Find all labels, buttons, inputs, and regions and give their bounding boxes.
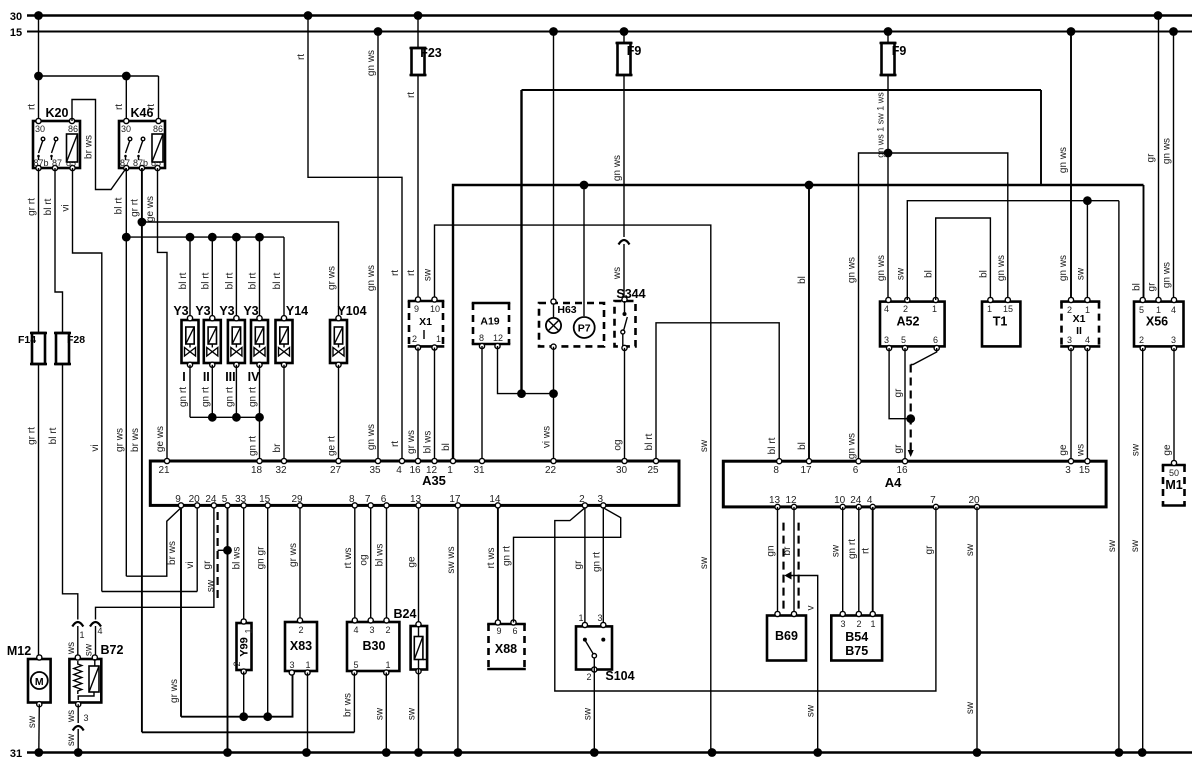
svg-text:III: III (225, 370, 235, 384)
label vi (61, 204, 72, 211)
wire A35-13 ge (418, 508, 420, 626)
label og (613, 439, 624, 450)
svg-text:87: 87 (52, 158, 62, 168)
svg-text:rt: rt (406, 92, 417, 98)
svg-text:Y3: Y3 (195, 304, 210, 318)
svg-text:6: 6 (512, 626, 517, 636)
label gr rt (130, 199, 141, 217)
label bl A52-1 (924, 270, 935, 278)
label bl rt (48, 427, 59, 444)
svg-text:24: 24 (205, 494, 217, 505)
wire ge X1II-3 to A4-3 (1070, 348, 1072, 461)
svg-text:S344: S344 (616, 287, 645, 301)
arrow B72-1 (72, 622, 83, 627)
label gr A4-7 (924, 545, 935, 555)
svg-text:IV: IV (248, 370, 260, 384)
svg-text:gn ws: gn ws (366, 424, 377, 450)
wire B72 bottom (77, 704, 79, 752)
svg-text:bl: bl (924, 270, 935, 278)
label sw X56-2 (1131, 443, 1142, 456)
label gn rt Y3 (224, 387, 235, 407)
svg-text:sw: sw (895, 267, 906, 280)
svg-text:14: 14 (489, 494, 501, 505)
label gn rt B54 (847, 539, 858, 559)
label ge ws mid (155, 426, 166, 452)
label rt K20-30 (27, 104, 38, 110)
wire Y top 3 (235, 237, 237, 317)
svg-text:3: 3 (1171, 335, 1176, 345)
relay K20 (33, 118, 80, 170)
svg-text:4: 4 (97, 626, 102, 636)
svg-text:bl rt: bl rt (178, 272, 189, 289)
wire vi link (102, 591, 197, 593)
svg-text:sw: sw (84, 643, 95, 656)
svg-text:sw: sw (831, 544, 842, 557)
label rt K46-86 (146, 104, 157, 110)
svg-text:ge rt: ge rt (327, 436, 338, 456)
label og A35-7 (359, 554, 370, 565)
wire F28-B72 bl rt (63, 367, 78, 620)
fuse F9 left (616, 32, 633, 238)
svg-text:gr rt: gr rt (27, 198, 38, 216)
svg-text:ws: ws (66, 642, 77, 655)
wire Y bottom bus gn rt (190, 365, 264, 460)
svg-text:2: 2 (903, 304, 908, 314)
svg-text:S104: S104 (605, 669, 634, 683)
svg-text:31: 31 (10, 748, 22, 760)
label br (272, 443, 283, 453)
svg-text:bl ws: bl ws (232, 547, 243, 570)
svg-text:B30: B30 (363, 639, 386, 653)
svg-text:1: 1 (447, 465, 453, 476)
wire 30-rt to A35-4 (308, 16, 402, 461)
label S104 (605, 669, 634, 683)
svg-text:rt: rt (296, 54, 307, 60)
label rt3 (390, 441, 401, 447)
connector X88 (487, 620, 526, 669)
svg-text:gr: gr (1147, 282, 1158, 292)
label F23 (420, 46, 442, 60)
svg-text:gn ws: gn ws (1162, 262, 1173, 288)
label ws B72-1 (66, 642, 77, 655)
label gn rt Y4 (248, 387, 259, 407)
connector X1 II (1060, 297, 1100, 350)
wire bus to Y104 gr ws (142, 222, 339, 318)
switch S344 (615, 297, 636, 351)
svg-text:12: 12 (493, 333, 503, 343)
svg-text:6: 6 (381, 494, 387, 505)
wire gn ws to A4-6 (859, 153, 889, 461)
svg-text:ws: ws (66, 710, 77, 723)
svg-text:20: 20 (968, 495, 980, 506)
label ge B24 (407, 556, 418, 568)
wire A4-20 sw (976, 507, 978, 753)
label sw right2 (699, 556, 710, 569)
svg-text:B72: B72 (101, 643, 124, 657)
svg-text:X88: X88 (495, 642, 517, 656)
control unit A52 (880, 297, 945, 350)
svg-text:9: 9 (496, 626, 501, 636)
label gn ws A52-4 (876, 255, 887, 281)
svg-text:sw: sw (1107, 539, 1118, 552)
svg-text:gr rt: gr rt (130, 199, 141, 217)
wire K20-85 vi (73, 168, 102, 592)
svg-text:B54: B54 (845, 630, 868, 644)
wire S344 to A35-30 og (624, 348, 626, 460)
wire bus bl rt Y3 (126, 233, 284, 242)
label gn ws (366, 50, 377, 76)
svg-text:3: 3 (597, 613, 602, 623)
solenoid valve Y3 (II) (204, 316, 221, 368)
fuse F23 (410, 16, 427, 300)
wire 30-to-K20/K46 rt (34, 16, 158, 122)
label gr S104 (573, 560, 584, 570)
wire A4-13 gn (777, 507, 779, 617)
svg-text:4: 4 (867, 495, 873, 506)
svg-text:5: 5 (222, 494, 228, 505)
svg-text:ge ws: ge ws (145, 196, 156, 222)
label ws X1II-4 (1075, 444, 1086, 457)
svg-text:1: 1 (987, 304, 992, 314)
wire sw X1-10 (435, 225, 711, 752)
svg-text:gn rt: gn rt (502, 546, 513, 566)
svg-text:rt: rt (390, 441, 401, 447)
label gn B69 (766, 545, 777, 556)
shield sw A35-5 (218, 512, 228, 603)
label gn rt A35-18 (248, 436, 259, 456)
label gn ws A4-6 up (847, 257, 858, 283)
svg-text:gn ws: gn ws (366, 265, 377, 291)
wire Y top 1 (189, 237, 191, 317)
connector X83 (285, 618, 317, 675)
wire A35-5 bl ws (223, 508, 232, 753)
svg-text:ws: ws (612, 267, 623, 280)
arrow B72-4 (90, 622, 101, 627)
label rt2 (390, 270, 401, 276)
svg-text:bl: bl (1132, 283, 1143, 291)
label bl rt Y4 (248, 272, 259, 289)
label gr ws X1 (406, 430, 417, 454)
svg-text:T1: T1 (993, 315, 1008, 329)
svg-text:31: 31 (473, 465, 485, 476)
wire 15 to H63 (553, 32, 555, 318)
wire K20-87 bl rt (55, 168, 63, 330)
wire A35-20 vi (196, 508, 198, 592)
label ws B72 dn (66, 710, 77, 723)
svg-text:50: 50 (1169, 468, 1179, 478)
svg-text:24: 24 (850, 495, 862, 506)
label sw shield B69 (806, 704, 817, 717)
wire gn ws to T1-15 (888, 153, 1008, 300)
label ge rt (327, 436, 338, 456)
solenoid valve Y14 (276, 316, 293, 368)
svg-text:5: 5 (1139, 305, 1144, 315)
svg-text:2: 2 (298, 625, 303, 635)
svg-text:9: 9 (175, 494, 181, 505)
wire Y14 to A35-32 br (283, 365, 285, 460)
label rt F23 (406, 92, 417, 98)
svg-text:15: 15 (1079, 465, 1091, 476)
svg-text:II: II (1076, 325, 1082, 337)
svg-text:sw: sw (1130, 539, 1141, 552)
svg-text:33: 33 (235, 494, 247, 505)
svg-text:F9: F9 (627, 44, 642, 58)
label sw shield (206, 579, 217, 592)
wire A35-33 to Y99 (243, 508, 245, 623)
wire bl A4-17 (808, 185, 810, 461)
wire bl A52-1 to T1-1 (936, 218, 991, 300)
svg-text:10: 10 (430, 304, 440, 314)
resistance sensor B72 (69, 655, 101, 707)
svg-text:rt: rt (390, 270, 401, 276)
label gn ws X1II up (1058, 147, 1069, 173)
svg-text:18: 18 (251, 465, 263, 476)
wire y90 link (522, 90, 1042, 394)
label Y14 (286, 304, 308, 318)
valve Y99 (232, 619, 254, 674)
label bl dn (797, 442, 808, 450)
wire X1-2 gr ws (417, 348, 419, 461)
svg-text:87b: 87b (133, 158, 148, 168)
label gn ws T1-15 (996, 255, 1007, 281)
label br ws mid (130, 428, 141, 452)
label S344 (616, 287, 645, 301)
svg-text:8: 8 (349, 494, 355, 505)
svg-text:16: 16 (896, 465, 908, 476)
svg-text:gn ws: gn ws (1058, 255, 1069, 281)
label ws S344 (612, 267, 623, 280)
label vi mid (90, 444, 101, 451)
svg-text:ge ws: ge ws (155, 426, 166, 452)
svg-text:gr: gr (893, 444, 904, 454)
label sw right rail1 (1107, 539, 1118, 552)
label Y3 (195, 304, 210, 318)
label rt B54 (861, 548, 872, 554)
svg-text:F23: F23 (420, 46, 442, 60)
label gr rt (27, 198, 38, 216)
svg-text:3: 3 (369, 625, 374, 635)
svg-text:A52: A52 (897, 315, 920, 329)
label bl rt (43, 198, 54, 215)
svg-text:sw: sw (407, 707, 418, 720)
label bl T1-1 (978, 270, 989, 278)
svg-text:vi: vi (185, 561, 196, 568)
svg-text:Y3: Y3 (173, 304, 188, 318)
label gr X56 up (1146, 153, 1157, 163)
svg-text:sw: sw (699, 439, 710, 452)
svg-text:12: 12 (785, 495, 797, 506)
label I (182, 370, 185, 384)
label F9 right (892, 44, 907, 58)
wire Y top 2 (211, 237, 213, 317)
svg-text:17: 17 (449, 494, 461, 505)
svg-text:A4: A4 (885, 475, 902, 490)
svg-text:gn rt: gn rt (591, 552, 602, 572)
relay K46 (119, 118, 165, 170)
svg-text:gn ws: gn ws (366, 50, 377, 76)
svg-text:2: 2 (385, 625, 390, 635)
solenoid valve Y3 (III) (228, 316, 245, 368)
svg-text:bl rt: bl rt (48, 427, 59, 444)
label bl rt Y2 (200, 272, 211, 289)
wire A35-2 gr to A4-7 (555, 507, 936, 691)
label M12 (7, 644, 31, 658)
svg-text:bl: bl (978, 270, 989, 278)
svg-text:30: 30 (121, 124, 131, 134)
svg-text:P7: P7 (578, 323, 591, 335)
svg-text:13: 13 (410, 494, 422, 505)
label sw right (699, 439, 710, 452)
svg-text:30: 30 (10, 11, 22, 23)
wire X88-6 gn rt (514, 508, 621, 623)
label gr ws A35-29 (288, 543, 299, 567)
svg-text:bl ws: bl ws (375, 544, 386, 567)
svg-text:II: II (203, 370, 210, 384)
svg-text:sw ws: sw ws (446, 546, 457, 573)
wire A35-2 gr to S104-1 (584, 508, 586, 625)
svg-text:vi: vi (90, 444, 101, 451)
svg-text:2: 2 (1139, 335, 1144, 345)
wire A4-10 sw (842, 507, 844, 617)
wire K20-86 br ws (72, 100, 126, 190)
sensor B24 (411, 622, 428, 674)
svg-text:bl: bl (797, 276, 808, 284)
label vi ws (542, 426, 553, 448)
label bl rt Y5 (272, 272, 283, 289)
svg-text:gn gr: gn gr (256, 546, 267, 569)
svg-text:8: 8 (773, 465, 779, 476)
wire A35-9 gr ws down (180, 508, 182, 717)
svg-text:br ws: br ws (167, 541, 178, 565)
wire A4-12 br (793, 507, 795, 617)
svg-text:Y14: Y14 (286, 304, 308, 318)
label IV (248, 370, 260, 384)
svg-text:1: 1 (385, 660, 390, 670)
svg-text:gn ws: gn ws (996, 255, 1007, 281)
label ge ws (145, 196, 156, 222)
label gn ws combo (876, 92, 886, 158)
wire A35-7 og (370, 508, 372, 621)
svg-text:sw: sw (806, 704, 817, 717)
label Y3 (243, 304, 258, 318)
svg-text:86: 86 (153, 124, 163, 134)
svg-text:bl ws: bl ws (423, 431, 434, 454)
wire A52-6 shield (908, 348, 937, 457)
label K46 (131, 106, 154, 120)
label K20 (46, 106, 69, 120)
svg-text:30: 30 (35, 124, 45, 134)
svg-text:gn rt: gn rt (224, 387, 235, 407)
wire sw net A52-2 (907, 196, 1119, 752)
svg-text:bl rt: bl rt (644, 433, 655, 450)
wire A35-29 gr ws (299, 508, 301, 621)
svg-text:2: 2 (232, 661, 242, 666)
label gn ws2 (366, 265, 377, 291)
label III (225, 370, 235, 384)
label bl rt A4-8 (767, 437, 778, 454)
svg-text:1: 1 (1156, 305, 1161, 315)
label ge M1 (1162, 444, 1173, 456)
svg-text:sw: sw (206, 579, 217, 592)
label gr ws down (169, 679, 180, 703)
svg-text:gr ws: gr ws (406, 430, 417, 454)
label F14 (18, 334, 36, 346)
svg-text:gr ws: gr ws (288, 543, 299, 567)
svg-text:2: 2 (579, 494, 585, 505)
wire gr A52-5 to A4-16 (904, 348, 906, 461)
label sw right rail2 (1130, 539, 1141, 552)
wire X1-1 bl ws (434, 348, 436, 461)
svg-text:ge: ge (1058, 444, 1069, 456)
control unit A19 (472, 303, 511, 349)
svg-text:22: 22 (545, 465, 557, 476)
svg-text:8: 8 (479, 333, 484, 343)
svg-text:gn rt: gn rt (248, 436, 259, 456)
connector arrow S344 (619, 240, 630, 245)
label sw B54 (831, 544, 842, 557)
svg-text:sw: sw (965, 543, 976, 556)
label rt ws (343, 547, 354, 568)
fuse F9 right (880, 32, 897, 301)
label B72 (101, 643, 124, 657)
label gn ws F9 (612, 155, 623, 181)
label bl X56-5 (1132, 283, 1143, 291)
label gn gr (256, 546, 267, 569)
label br B69 (782, 546, 793, 556)
svg-text:3: 3 (83, 713, 88, 723)
svg-text:sw: sw (1131, 443, 1142, 456)
wire br ws link (142, 731, 355, 733)
svg-text:ws: ws (1075, 444, 1086, 457)
svg-text:3: 3 (598, 494, 604, 505)
wire A35-14 rt ws (497, 508, 499, 623)
svg-text:4: 4 (396, 465, 402, 476)
svg-text:sw: sw (66, 733, 77, 746)
svg-text:27: 27 (330, 465, 342, 476)
label gn rt Y1 (178, 387, 189, 407)
wire A35-3 gn rt to S104-3 (602, 508, 604, 625)
svg-text:21: 21 (158, 465, 170, 476)
svg-text:B75: B75 (845, 644, 868, 658)
label gn ws X1II dn (1058, 255, 1069, 281)
shield B69 (784, 523, 818, 753)
label bl ws A35-5 (232, 547, 243, 570)
label II (203, 370, 210, 384)
label sw A4-20 up (965, 543, 976, 556)
svg-text:M12: M12 (7, 644, 31, 658)
svg-text:87b: 87b (34, 158, 49, 168)
svg-text:rt: rt (861, 548, 872, 554)
svg-text:1: 1 (870, 619, 875, 629)
svg-text:Y3: Y3 (219, 304, 234, 318)
svg-text:X1: X1 (1073, 313, 1086, 325)
svg-text:6: 6 (853, 465, 859, 476)
svg-text:3: 3 (840, 619, 845, 629)
label gr A52 dn (893, 444, 904, 454)
label v shield (806, 606, 817, 611)
svg-text:7: 7 (930, 495, 936, 506)
wire H63 to vi ws (553, 347, 555, 460)
svg-text:F9: F9 (892, 44, 907, 58)
svg-text:gn ws: gn ws (847, 433, 858, 459)
sensor B54 B75 (831, 611, 882, 660)
sensor B30 (347, 618, 399, 675)
starter M1 (1162, 460, 1186, 505)
wire S104-2 sw (593, 670, 595, 753)
svg-text:bl rt: bl rt (114, 197, 125, 214)
wire gr X56-1 (1158, 16, 1160, 301)
label rt (296, 54, 307, 60)
